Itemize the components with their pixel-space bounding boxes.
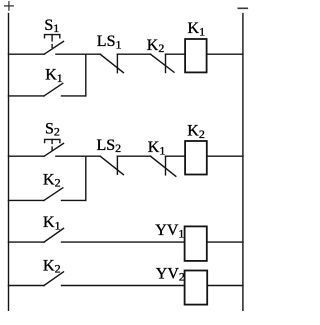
wire row2 right	[62, 95, 86, 97]
right rail (-)	[242, 14, 244, 311]
wire row4 left	[9, 199, 45, 201]
wire row1 left	[9, 53, 45, 55]
wire row5 left	[9, 241, 45, 243]
wire row2 left	[9, 95, 45, 97]
wire row4 right	[62, 199, 86, 201]
wire row1 to coil	[166, 53, 186, 55]
svg-text:K2: K2	[187, 123, 205, 141]
junction riser row2-row1	[85, 54, 87, 96]
contact K1 (NO)	[44, 83, 63, 96]
wire row3 to coil	[166, 155, 186, 157]
limit switch LS1 (NC)	[100, 54, 123, 72]
svg-text:K1: K1	[188, 20, 206, 38]
coil K2	[185, 141, 207, 175]
svg-text:LS2: LS2	[97, 137, 122, 155]
left rail (+)	[8, 14, 10, 311]
svg-text:K2: K2	[43, 257, 61, 275]
contact K2 (NO)	[44, 188, 63, 201]
svg-text:K1: K1	[148, 139, 166, 157]
svg-text:LS1: LS1	[97, 33, 122, 51]
svg-text:K2: K2	[147, 37, 165, 55]
svg-text:S2: S2	[45, 120, 60, 138]
contact K2 (NC)	[151, 54, 175, 72]
pushbutton S2	[44, 139, 63, 156]
wire row6 to coil	[62, 285, 185, 287]
junction riser row4-row3	[85, 156, 87, 200]
coil K1	[185, 39, 207, 72]
wire row6 right	[207, 285, 243, 287]
svg-text:S1: S1	[44, 17, 59, 35]
contact K1 (NC)	[151, 156, 176, 176]
svg-text:K1: K1	[45, 67, 63, 85]
svg-text:K1: K1	[43, 214, 61, 232]
coil YV1	[185, 226, 207, 261]
svg-text:YV1: YV1	[155, 222, 184, 240]
coil YV2	[185, 271, 208, 305]
svg-text:K2: K2	[43, 171, 61, 189]
wire row5 right	[207, 241, 243, 243]
wire row1 mid	[56, 53, 100, 55]
wire row5 to coil	[62, 241, 185, 243]
wire row3 right	[207, 155, 243, 157]
wire row1	[117, 53, 150, 55]
pushbutton S1	[44, 35, 63, 55]
plus terminal	[5, 2, 14, 10]
wire row3 left	[9, 155, 45, 157]
wire row1 right	[207, 53, 243, 55]
contact K1 (NO)	[44, 228, 64, 242]
wire row3 mid	[56, 155, 100, 157]
limit switch LS2 (NC)	[100, 156, 123, 174]
minus terminal	[238, 7, 247, 9]
wire row3	[117, 155, 150, 157]
contact K2 (NO)	[44, 272, 64, 286]
svg-text:YV2: YV2	[156, 265, 185, 283]
wire row6 left	[9, 285, 45, 287]
